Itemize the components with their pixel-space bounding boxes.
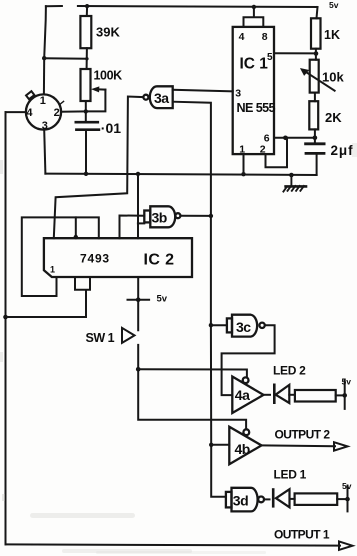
node LED2 5v tap — [342, 393, 347, 398]
node 5v tap — [136, 297, 141, 302]
wire IC1 pin 6 — [274, 137, 315, 139]
wire 100K bottom lead — [85, 101, 87, 122]
resistor LED1 limiter — [295, 493, 338, 505]
node top rail / IC1 pins 4-8 tap — [252, 5, 256, 9]
svg-text:5: 5 — [267, 52, 273, 63]
svg-text:3a: 3a — [154, 90, 169, 106]
node left rail / IC2 feed — [3, 315, 8, 320]
wire IC2 feedback loop top — [22, 217, 99, 296]
node junction 39K/100K to phototransistor — [42, 56, 46, 60]
wire top rail into 1K — [317, 7, 318, 18]
wire left rail — [5, 112, 7, 544]
wire 3b input top from IC2 — [120, 216, 145, 239]
wire LED2 5v stub — [344, 380, 346, 409]
phototransistor Q1 (TO-18 can, pins 1-4) — [26, 94, 61, 129]
wire top rail — [46, 6, 318, 7]
svg-text:1: 1 — [50, 265, 55, 275]
svg-text:2K: 2K — [325, 110, 342, 125]
gate 4b (inverting buffer) — [229, 427, 261, 465]
wire .01 bottom lead — [85, 130, 87, 174]
wire 3a input bottom from 3b output — [173, 102, 211, 216]
node 3c input tap — [209, 323, 213, 327]
svg-text:3: 3 — [42, 120, 48, 132]
wire 5v line down from IC2 — [138, 277, 246, 429]
svg-text:·01: ·01 — [101, 120, 121, 136]
svg-text:5v: 5v — [342, 377, 352, 387]
svg-text:5v: 5v — [329, 0, 339, 10]
node pin2 bracket junction — [283, 136, 288, 141]
ground symbol — [283, 175, 306, 192]
gate 3c (NAND) — [227, 315, 265, 337]
wire IC1 pin 2 bracket to pin 6 — [266, 138, 288, 168]
wire 39K top lead — [86, 6, 88, 16]
node IC1 pin1 on ground bus — [241, 172, 245, 176]
IC2 7493 — [44, 238, 192, 277]
capacitor C 2uf — [306, 144, 325, 154]
wire phototransistor pin 3 down — [44, 130, 45, 174]
svg-text:10k: 10k — [322, 70, 344, 85]
svg-text:3d: 3d — [233, 493, 248, 509]
svg-text:3b: 3b — [152, 210, 167, 226]
resistor R 2K — [309, 101, 318, 129]
node wiper / pin2 junction — [84, 109, 88, 113]
svg-text:3c: 3c — [236, 319, 251, 335]
wire LED2 to resistor — [289, 394, 295, 396]
svg-text:OUTPUT 2: OUTPUT 2 — [275, 428, 331, 442]
svg-text:LED 1: LED 1 — [274, 468, 307, 482]
wire 2uf bottom to ground bus — [316, 153, 318, 175]
svg-text:2: 2 — [54, 107, 60, 119]
switch SW1 triangle — [122, 328, 135, 343]
gate 3d (NAND) — [226, 488, 264, 512]
node chain junction — [85, 57, 88, 60]
wire LED1 to resistor — [290, 498, 295, 500]
svg-text:3: 3 — [235, 87, 241, 99]
wire IC1 pin 5 — [274, 52, 316, 54]
wire 100K wiper return — [86, 90, 106, 112]
wire SW line to 4a bubble — [138, 369, 247, 377]
svg-text:OUTPUT 1: OUTPUT 1 — [274, 528, 330, 542]
IC1 NE555 — [233, 27, 274, 154]
potentiometer R 10k — [310, 60, 319, 93]
LED 2 diode — [274, 385, 289, 403]
wire phototransistor pin 4 to left rail — [6, 111, 26, 113]
wire junction to resistor chain — [44, 57, 87, 60]
node .01 to ground bus — [84, 172, 88, 176]
arrowhead OUTPUT 2 — [334, 442, 348, 450]
wire 3b output rail down — [211, 216, 226, 497]
svg-text:7493: 7493 — [80, 252, 110, 266]
svg-text:IC 2: IC 2 — [144, 252, 175, 269]
svg-text:4: 4 — [239, 31, 245, 43]
tick on can edge — [59, 101, 63, 104]
wire 3a output to IC2 — [54, 97, 144, 239]
wire resistor to 5v stub — [336, 394, 345, 396]
node LED1 5v tap — [345, 497, 350, 502]
wire 4a output to LED2 — [264, 394, 271, 396]
wire IC1 pin 1 to ground bus — [243, 154, 245, 174]
resistor R 39K — [80, 16, 91, 48]
node top rail / 39K tap — [85, 4, 89, 8]
resistor LED2 limiter — [295, 390, 336, 402]
svg-text:2μf: 2μf — [331, 143, 354, 158]
node loop tap — [74, 235, 78, 239]
svg-text:4a: 4a — [235, 387, 250, 403]
wire left drop from top rail — [44, 6, 46, 58]
wire 3d output to LED1 — [264, 498, 270, 500]
wire loop tap into IC2 — [75, 217, 77, 238]
wire IC2 bottom notch to left rail — [6, 277, 91, 317]
LED 1 diode — [273, 489, 289, 507]
wire resistor to 5v stub — [337, 498, 347, 500]
wire OUTPUT 2 line — [262, 444, 336, 447]
wire phototransistor pin 2 to wiper node — [61, 110, 86, 112]
wire to phototransistor pin 1 — [43, 58, 45, 94]
svg-text:SW 1: SW 1 — [86, 331, 115, 345]
svg-text:2: 2 — [260, 143, 266, 155]
svg-text:NE 555: NE 555 — [237, 101, 276, 115]
node ground tap — [289, 173, 294, 178]
node SW line to 4a bubble feed — [136, 367, 141, 372]
wiper arrow of 10k — [305, 71, 335, 91]
wire OUTPUT 1 line — [6, 544, 341, 545]
node 3b output to 3a — [209, 214, 213, 218]
wire 39K bottom lead to 100K — [86, 48, 88, 69]
tab on phototransistor can — [26, 91, 34, 99]
resistor R 100K (preset) — [81, 69, 91, 101]
wire 3c output to 4a input — [222, 325, 275, 395]
svg-text:4b: 4b — [235, 441, 250, 457]
wire 5v tick — [128, 299, 150, 301]
wire 2K bottom to cap — [314, 129, 316, 143]
gate 3b (NAND) — [144, 206, 180, 227]
gate 3a (NAND, mirrored left-facing) — [143, 86, 172, 108]
node 4b input tap — [209, 443, 213, 447]
svg-text:1: 1 — [40, 95, 46, 107]
wire 10k bottom to 2K — [314, 93, 316, 102]
wire 3b input bottom stub — [138, 222, 144, 224]
node pin6 junction — [313, 135, 318, 140]
svg-text:IC 1: IC 1 — [240, 56, 269, 73]
svg-text:1K: 1K — [324, 28, 340, 42]
svg-text:5v: 5v — [342, 481, 352, 491]
wire 3a input top from IC1 pin 3 — [173, 90, 233, 92]
wire 3b output — [181, 215, 211, 217]
scan smudges (decorative) — [0, 143, 357, 554]
wire clock line into IC2 — [137, 174, 139, 238]
svg-text:5v: 5v — [157, 294, 168, 305]
wire 4b input — [211, 444, 229, 446]
svg-text:4: 4 — [26, 107, 33, 119]
wiper arrow of 100K preset — [97, 88, 106, 90]
gate 4a (inverting buffer) — [232, 377, 263, 414]
svg-text:39K: 39K — [96, 25, 120, 40]
arrowhead OUTPUT 1 — [339, 541, 353, 550]
svg-text:LED 2: LED 2 — [273, 364, 306, 378]
wire 3c input — [211, 324, 227, 326]
svg-text:100K: 100K — [94, 69, 123, 83]
wire 1K bottom to 10k top — [315, 49, 317, 60]
wire ground bus under IC1 — [45, 174, 316, 175]
wire LED1 5v stub — [347, 486, 349, 512]
wire IC1 pins 4-8 supply bracket — [244, 7, 264, 27]
resistor R 1K — [311, 18, 321, 48]
node clock feed on ground bus — [136, 172, 140, 176]
node pin5 / divider junction — [314, 51, 319, 56]
svg-text:1: 1 — [239, 143, 245, 155]
svg-text:8: 8 — [262, 31, 268, 43]
capacitor C .01 — [76, 122, 99, 130]
